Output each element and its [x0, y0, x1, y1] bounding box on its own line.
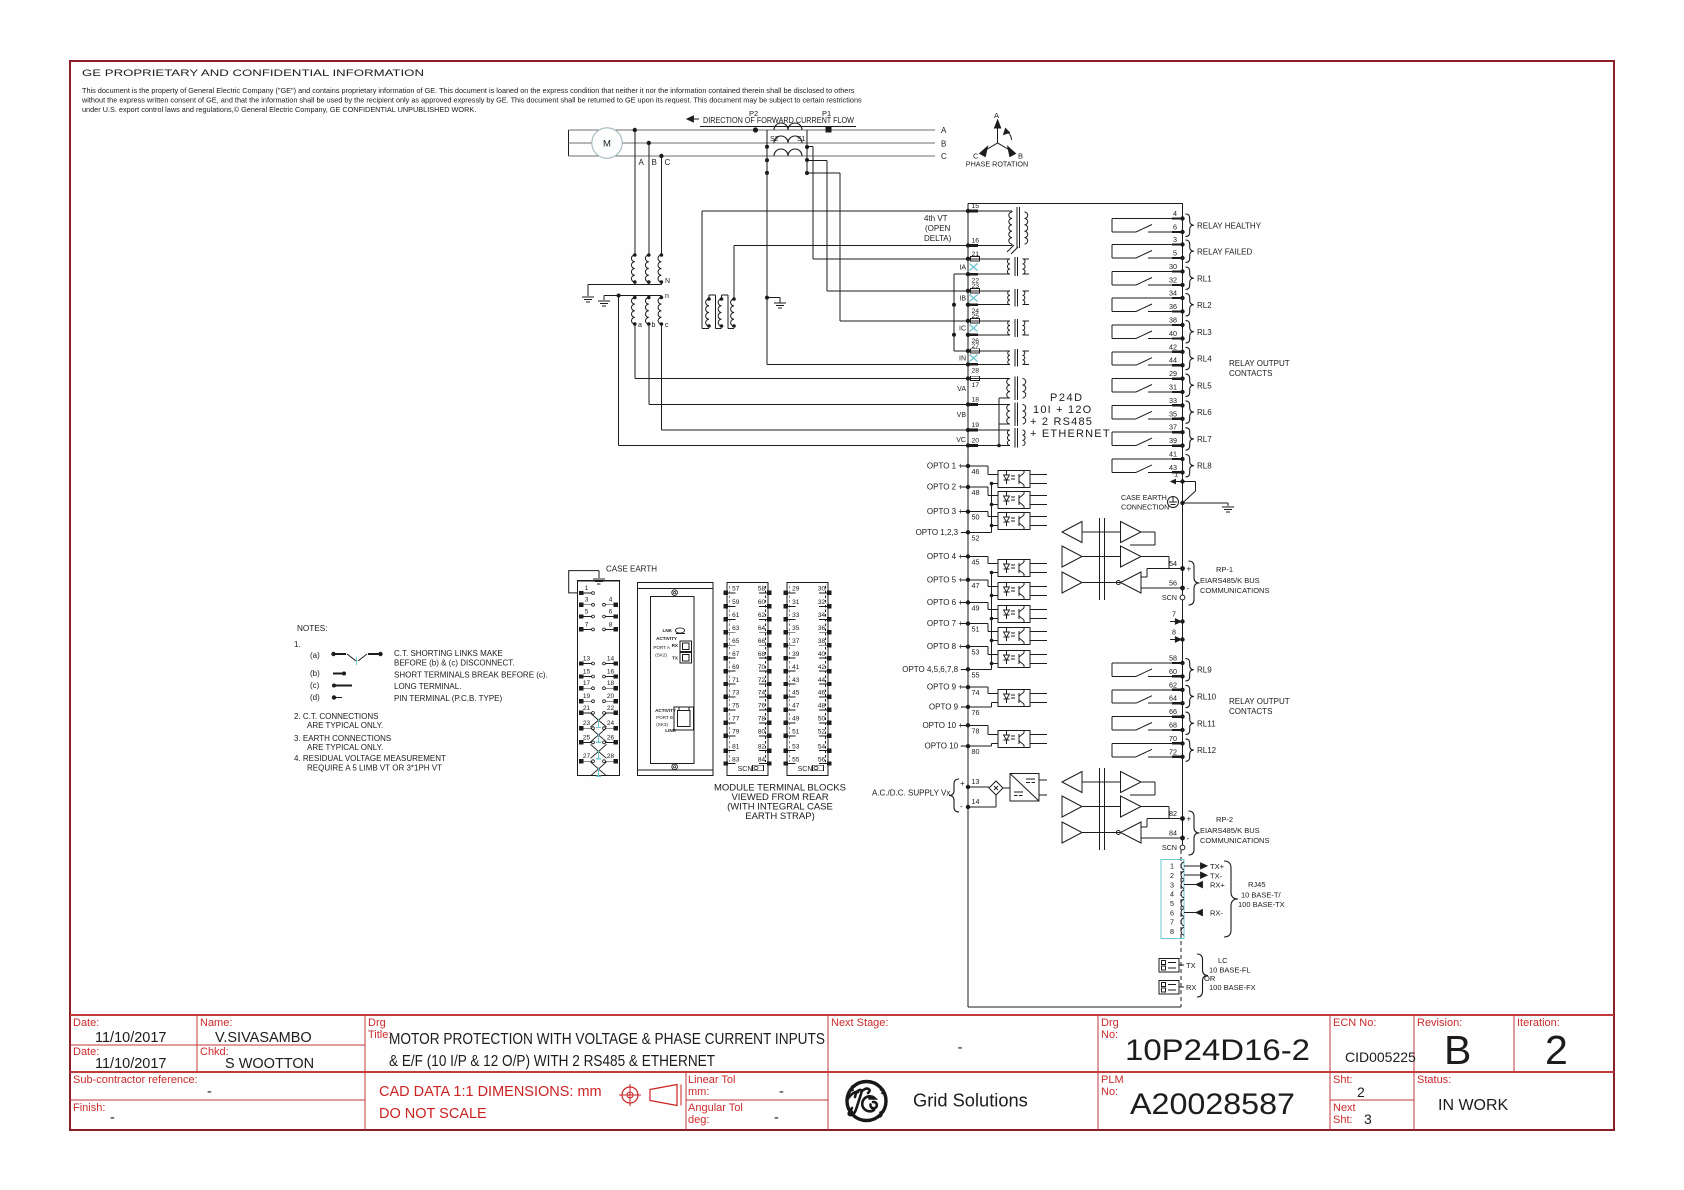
- svg-text:RL10: RL10: [1197, 693, 1217, 702]
- svg-text:deg:: deg:: [688, 1114, 709, 1126]
- svg-text:NOTES:: NOTES:: [297, 624, 327, 633]
- svg-text:55: 55: [972, 670, 980, 679]
- svg-text:64: 64: [758, 625, 766, 632]
- svg-text:18: 18: [972, 397, 980, 404]
- svg-text:77: 77: [732, 716, 740, 723]
- svg-text:RELAY OUTPUT: RELAY OUTPUT: [1229, 359, 1290, 368]
- svg-text:10P24D16-2: 10P24D16-2: [1125, 1034, 1310, 1067]
- svg-text:58: 58: [758, 586, 766, 593]
- svg-text:Title:: Title:: [368, 1029, 391, 1041]
- svg-text:IN WORK: IN WORK: [1438, 1097, 1509, 1114]
- svg-text:+: +: [1187, 815, 1192, 824]
- svg-text:62: 62: [1169, 680, 1177, 689]
- svg-text:3. EARTH CONNECTIONS: 3. EARTH CONNECTIONS: [294, 734, 391, 743]
- svg-text:Angular Tol: Angular Tol: [688, 1102, 743, 1114]
- svg-text:S WOOTTON: S WOOTTON: [225, 1056, 314, 1072]
- svg-text:IA: IA: [959, 265, 966, 272]
- svg-text:60: 60: [1169, 667, 1177, 676]
- svg-text:RL8: RL8: [1197, 462, 1212, 471]
- svg-text:OPTO 1 +: OPTO 1 +: [927, 462, 963, 471]
- svg-text:21: 21: [972, 251, 980, 258]
- svg-text:1: 1: [1170, 862, 1174, 871]
- svg-text:IC: IC: [959, 326, 966, 333]
- svg-text:11/10/2017: 11/10/2017: [95, 1030, 167, 1046]
- svg-text:58: 58: [1169, 654, 1177, 663]
- svg-text:78: 78: [758, 716, 766, 723]
- svg-text:19: 19: [583, 693, 591, 700]
- svg-text:Next Stage:: Next Stage:: [831, 1017, 888, 1029]
- svg-text:mm:: mm:: [688, 1086, 709, 1098]
- svg-text:44: 44: [818, 677, 826, 684]
- svg-text:50: 50: [972, 513, 980, 522]
- svg-text:13: 13: [972, 777, 980, 786]
- svg-text:OPTO 2 +: OPTO 2 +: [927, 483, 963, 492]
- svg-text:44: 44: [1169, 356, 1177, 365]
- svg-text:46: 46: [972, 467, 980, 476]
- svg-text:34: 34: [818, 612, 826, 619]
- svg-text:43: 43: [792, 677, 800, 684]
- svg-text:VB: VB: [957, 412, 967, 419]
- svg-text:(SK2): (SK2): [655, 653, 667, 658]
- svg-text:TX: TX: [672, 656, 679, 661]
- svg-text:OPTO 4 +: OPTO 4 +: [927, 552, 963, 561]
- svg-text:PIN TERMINAL (P.C.B. TYPE): PIN TERMINAL (P.C.B. TYPE): [394, 694, 503, 703]
- svg-text:83: 83: [732, 756, 740, 763]
- svg-text:CONTACTS: CONTACTS: [1229, 369, 1272, 378]
- svg-text:CAD DATA 1:1 DIMENSIONS: mm: CAD DATA 1:1 DIMENSIONS: mm: [379, 1084, 602, 1100]
- svg-text:19: 19: [972, 422, 980, 429]
- svg-text:C.T. SHORTING LINKS MAKE: C.T. SHORTING LINKS MAKE: [394, 649, 503, 658]
- svg-text:-: -: [1187, 584, 1190, 593]
- svg-text:EARTH STRAP): EARTH STRAP): [745, 811, 815, 822]
- svg-text:33: 33: [792, 612, 800, 619]
- svg-text:47: 47: [972, 581, 980, 590]
- svg-text:7: 7: [1172, 610, 1176, 619]
- svg-text:2: 2: [1357, 1084, 1365, 1100]
- svg-text:C: C: [665, 158, 671, 167]
- svg-text:53: 53: [972, 648, 980, 657]
- svg-text:52: 52: [818, 729, 826, 736]
- svg-text:82: 82: [1169, 809, 1177, 818]
- svg-text:21: 21: [583, 705, 591, 712]
- svg-text:SCN: SCN: [798, 766, 813, 773]
- svg-text:26: 26: [607, 734, 615, 741]
- svg-text:Sht:: Sht:: [1333, 1074, 1353, 1086]
- svg-text:57: 57: [732, 586, 740, 593]
- svg-text:25: 25: [972, 313, 980, 320]
- svg-text:33: 33: [1169, 396, 1177, 405]
- svg-text:RP-2: RP-2: [1216, 815, 1233, 824]
- svg-text:54: 54: [1169, 559, 1177, 568]
- svg-text:COMMUNICATIONS: COMMUNICATIONS: [1200, 836, 1269, 845]
- svg-text:27: 27: [972, 343, 980, 350]
- svg-text:OPTO 10 +: OPTO 10 +: [922, 721, 963, 730]
- svg-text:74: 74: [972, 688, 980, 697]
- svg-text:No:: No:: [1101, 1029, 1118, 1041]
- svg-text:76: 76: [972, 708, 980, 717]
- svg-text:10 BASE-T/: 10 BASE-T/: [1241, 891, 1282, 900]
- svg-text:RL12: RL12: [1197, 746, 1217, 755]
- svg-text:3: 3: [585, 597, 589, 604]
- svg-text:OPTO 5 +: OPTO 5 +: [927, 575, 963, 584]
- svg-text:A20028587: A20028587: [1130, 1088, 1295, 1121]
- svg-text:22: 22: [607, 705, 615, 712]
- svg-text:63: 63: [732, 625, 740, 632]
- svg-text:8: 8: [1172, 628, 1176, 637]
- svg-text:A.C./D.C. SUPPLY Vx: A.C./D.C. SUPPLY Vx: [872, 789, 950, 798]
- svg-text:6: 6: [1170, 908, 1174, 917]
- svg-text:RL4: RL4: [1197, 355, 1212, 364]
- svg-text:72: 72: [758, 677, 766, 684]
- svg-text:RELAY FAILED: RELAY FAILED: [1197, 247, 1253, 256]
- svg-text:OPTO 9 +: OPTO 9 +: [927, 683, 963, 692]
- svg-text:(OPEN: (OPEN: [925, 224, 951, 233]
- svg-text:80: 80: [972, 747, 980, 756]
- svg-text:Grid Solutions: Grid Solutions: [913, 1090, 1028, 1111]
- svg-text:OPTO 3 +: OPTO 3 +: [927, 507, 963, 516]
- svg-text:c: c: [665, 322, 669, 329]
- svg-text:RL3: RL3: [1197, 328, 1212, 337]
- svg-text:ECN No:: ECN No:: [1333, 1017, 1376, 1029]
- svg-text:28: 28: [607, 753, 615, 760]
- svg-text:55: 55: [792, 756, 800, 763]
- svg-text:4. RESIDUAL VOLTAGE MEASURE: 4. RESIDUAL VOLTAGE MEASUREMENT: [294, 754, 446, 763]
- svg-text:59: 59: [732, 599, 740, 606]
- svg-text:EIARS485/K BUS: EIARS485/K BUS: [1200, 576, 1260, 585]
- svg-text:100 BASE-FX: 100 BASE-FX: [1209, 983, 1256, 992]
- svg-text:70: 70: [758, 664, 766, 671]
- svg-text:-: -: [1187, 834, 1190, 843]
- svg-text:This document is the property: This document is the property of General…: [82, 86, 855, 95]
- svg-text:N: N: [665, 278, 670, 285]
- svg-text:42: 42: [1169, 342, 1177, 351]
- svg-text:Finish:: Finish:: [73, 1102, 105, 1114]
- svg-text:CONTACTS: CONTACTS: [1229, 707, 1272, 716]
- svg-text:No:: No:: [1101, 1086, 1118, 1098]
- svg-text:SHORT TERMINALS BREAK BEFORE (: SHORT TERMINALS BREAK BEFORE (c).: [394, 671, 548, 680]
- svg-text:C: C: [941, 152, 947, 161]
- svg-text:A: A: [941, 126, 947, 135]
- svg-text:4: 4: [1173, 209, 1177, 218]
- svg-text:2: 2: [1545, 1027, 1568, 1073]
- svg-text:& E/F (10 I/P & 12 O/P) WITH 2: & E/F (10 I/P & 12 O/P) WITH 2 RS485 & E…: [389, 1053, 716, 1070]
- svg-text:-: -: [779, 1084, 784, 1100]
- svg-text:54: 54: [818, 743, 826, 750]
- svg-text:4th VT: 4th VT: [924, 214, 948, 223]
- svg-text:COMMUNICATIONS: COMMUNICATIONS: [1200, 586, 1269, 595]
- svg-text:39: 39: [792, 651, 800, 658]
- svg-text:PHASE ROTATION: PHASE ROTATION: [966, 160, 1028, 169]
- svg-text:68: 68: [1169, 721, 1177, 730]
- svg-text:V.SIVASAMBO: V.SIVASAMBO: [215, 1030, 312, 1046]
- svg-text:TX+: TX+: [1210, 862, 1225, 871]
- svg-text:RL11: RL11: [1197, 719, 1216, 728]
- svg-text:CASE EARTH: CASE EARTH: [1121, 493, 1167, 502]
- svg-text:REQUIRE A 5 LIMB VT OR 3: REQUIRE A 5 LIMB VT OR 3*1PH VT: [307, 764, 442, 773]
- svg-text:13: 13: [583, 656, 591, 663]
- svg-text:BEFORE (b) & (c) DISCONNECT.: BEFORE (b) & (c) DISCONNECT.: [394, 659, 514, 668]
- svg-text:B: B: [941, 139, 946, 148]
- svg-text:38: 38: [1169, 316, 1177, 325]
- svg-text:RELAY HEALTHY: RELAY HEALTHY: [1197, 221, 1262, 230]
- svg-text:CASE EARTH: CASE EARTH: [606, 565, 657, 574]
- svg-text:(d): (d): [310, 693, 320, 702]
- svg-text:+ ETHERNET: + ETHERNET: [1030, 428, 1111, 440]
- svg-text:66: 66: [1169, 707, 1177, 716]
- svg-text:without the express written co: without the express written consent of G…: [81, 96, 862, 105]
- svg-text:RP-1: RP-1: [1216, 565, 1233, 574]
- svg-text:RL6: RL6: [1197, 408, 1212, 417]
- svg-text:Date:: Date:: [73, 1017, 99, 1029]
- svg-text:23: 23: [583, 720, 591, 727]
- svg-text:PORT A: PORT A: [653, 645, 671, 650]
- svg-text:67: 67: [732, 651, 740, 658]
- svg-text:3: 3: [1364, 1111, 1372, 1127]
- svg-text:84: 84: [758, 756, 766, 763]
- svg-text:8: 8: [609, 621, 613, 628]
- svg-text:40: 40: [1169, 329, 1177, 338]
- svg-text:41: 41: [792, 664, 800, 671]
- svg-text:OPTO 10 -: OPTO 10 -: [924, 742, 963, 751]
- svg-text:71: 71: [732, 677, 740, 684]
- svg-text:6: 6: [1173, 223, 1177, 232]
- svg-text:39: 39: [1169, 436, 1177, 445]
- svg-text:1: 1: [585, 585, 589, 592]
- svg-text:S2: S2: [770, 136, 779, 143]
- svg-text:1.: 1.: [294, 640, 301, 649]
- svg-text:ACTIVITY: ACTIVITY: [655, 708, 676, 713]
- svg-text:38: 38: [818, 638, 826, 645]
- svg-text:RL9: RL9: [1197, 666, 1212, 675]
- svg-text:DO NOT SCALE: DO NOT SCALE: [379, 1106, 487, 1122]
- svg-text:34: 34: [1169, 289, 1177, 298]
- svg-text:ARE TYPICAL ONLY.: ARE TYPICAL ONLY.: [307, 743, 383, 752]
- svg-text:P24D: P24D: [1050, 392, 1084, 404]
- svg-text:Name:: Name:: [200, 1017, 232, 1029]
- svg-text:VC: VC: [956, 437, 966, 444]
- svg-text:74: 74: [758, 690, 766, 697]
- svg-text:40: 40: [818, 651, 826, 658]
- svg-text:17: 17: [972, 382, 980, 389]
- svg-text:A: A: [994, 111, 999, 120]
- svg-text:OPTO 1,2,3 -: OPTO 1,2,3 -: [916, 528, 964, 537]
- svg-text:78: 78: [972, 726, 980, 735]
- svg-text:M: M: [603, 139, 611, 150]
- svg-text:Drg: Drg: [368, 1017, 386, 1029]
- svg-text:5: 5: [1170, 899, 1174, 908]
- svg-text:30: 30: [818, 586, 826, 593]
- svg-text:IN: IN: [959, 356, 966, 363]
- svg-text:6: 6: [609, 609, 613, 616]
- svg-text:14: 14: [972, 797, 980, 806]
- svg-text:4: 4: [1170, 890, 1174, 899]
- svg-text:16: 16: [607, 669, 615, 676]
- svg-text:VA: VA: [957, 386, 966, 393]
- svg-text:-: -: [207, 1084, 212, 1100]
- svg-text:OPTO 4,5,6,7,8 -: OPTO 4,5,6,7,8 -: [902, 665, 963, 674]
- svg-text:EIARS485/K BUS: EIARS485/K BUS: [1200, 826, 1260, 835]
- svg-text:DELTA): DELTA): [924, 234, 952, 243]
- svg-text:S1: S1: [797, 136, 806, 143]
- svg-text:+ 2 RS485: + 2 RS485: [1030, 416, 1093, 428]
- svg-text:48: 48: [818, 703, 826, 710]
- svg-text:RL1: RL1: [1197, 274, 1212, 283]
- svg-text:23: 23: [972, 283, 980, 290]
- svg-text:RL5: RL5: [1197, 381, 1212, 390]
- svg-text:TX: TX: [1186, 961, 1196, 970]
- svg-text:under U.S. export control laws: under U.S. export control laws and regul…: [82, 105, 476, 114]
- svg-text:a: a: [638, 322, 642, 329]
- svg-text:68: 68: [758, 651, 766, 658]
- svg-text:RELAY OUTPUT: RELAY OUTPUT: [1229, 697, 1290, 706]
- svg-text:-: -: [774, 1110, 779, 1126]
- svg-text:82: 82: [758, 743, 766, 750]
- svg-text:61: 61: [732, 612, 740, 619]
- svg-text:B: B: [652, 158, 657, 167]
- svg-text:64: 64: [1169, 694, 1177, 703]
- svg-text:5: 5: [1173, 249, 1177, 258]
- svg-text:7: 7: [1170, 918, 1174, 927]
- svg-text:RJ45: RJ45: [1248, 880, 1266, 889]
- svg-text:ACTIVITY: ACTIVITY: [656, 636, 677, 641]
- svg-text:RX: RX: [1186, 983, 1196, 992]
- svg-text:Sht:: Sht:: [1333, 1114, 1353, 1126]
- svg-text:16: 16: [972, 238, 980, 245]
- svg-text:79: 79: [732, 729, 740, 736]
- svg-text:42: 42: [818, 664, 826, 671]
- svg-text:P1: P1: [822, 109, 831, 118]
- svg-text:RL2: RL2: [1197, 301, 1212, 310]
- svg-text:17: 17: [583, 680, 591, 687]
- svg-text:SCN: SCN: [1162, 593, 1177, 602]
- svg-text:RX+: RX+: [1210, 881, 1225, 890]
- svg-text:LNK: LNK: [663, 628, 673, 633]
- svg-text:7: 7: [585, 621, 589, 628]
- svg-text:46: 46: [818, 690, 826, 697]
- svg-text:SCN: SCN: [1162, 843, 1177, 852]
- svg-text:(c): (c): [310, 681, 320, 690]
- svg-text:49: 49: [792, 716, 800, 723]
- svg-text:(a): (a): [310, 651, 320, 660]
- svg-text:60: 60: [758, 599, 766, 606]
- svg-text:14: 14: [607, 656, 615, 663]
- svg-text:56: 56: [818, 756, 826, 763]
- svg-text:24: 24: [607, 720, 615, 727]
- svg-text:Drg: Drg: [1101, 1017, 1119, 1029]
- svg-text:+: +: [960, 779, 965, 788]
- svg-text:32: 32: [818, 599, 826, 606]
- svg-text:35: 35: [792, 625, 800, 632]
- svg-text:51: 51: [792, 729, 800, 736]
- svg-text:51: 51: [972, 625, 980, 634]
- svg-text:A: A: [639, 158, 645, 167]
- svg-text:-: -: [960, 802, 963, 811]
- svg-text:TX-: TX-: [1210, 871, 1223, 880]
- svg-text:+: +: [1187, 565, 1192, 574]
- svg-text:CID005225: CID005225: [1345, 1049, 1416, 1065]
- svg-text:OR: OR: [1204, 974, 1216, 983]
- svg-text:n: n: [665, 293, 669, 300]
- svg-text:15: 15: [583, 669, 591, 676]
- svg-text:PLM: PLM: [1101, 1074, 1124, 1086]
- svg-text:35: 35: [1169, 409, 1177, 418]
- svg-text:1: 1: [1174, 472, 1178, 479]
- svg-text:62: 62: [758, 612, 766, 619]
- svg-text:LC: LC: [1218, 956, 1228, 965]
- svg-text:72: 72: [1169, 747, 1177, 756]
- svg-text:B: B: [1444, 1027, 1471, 1073]
- svg-text:OPTO 6 +: OPTO 6 +: [927, 598, 963, 607]
- svg-text:3: 3: [1173, 235, 1177, 244]
- svg-text:MOTOR PROTECTION WITH VOLTAGE: MOTOR PROTECTION WITH VOLTAGE & PHASE CU…: [389, 1031, 825, 1048]
- svg-text:-: -: [110, 1110, 115, 1126]
- svg-text:8: 8: [1170, 927, 1174, 936]
- svg-text:Sub-contractor reference:: Sub-contractor reference:: [73, 1074, 198, 1086]
- svg-text:ARE TYPICAL ONLY.: ARE TYPICAL ONLY.: [307, 721, 383, 730]
- svg-text:CONNECTION: CONNECTION: [1121, 503, 1169, 512]
- svg-text:47: 47: [792, 703, 800, 710]
- svg-text:45: 45: [972, 558, 980, 567]
- svg-text:80: 80: [758, 729, 766, 736]
- svg-text:37: 37: [1169, 423, 1177, 432]
- svg-text:84: 84: [1169, 829, 1177, 838]
- svg-text:IB: IB: [959, 296, 966, 303]
- svg-text:RL7: RL7: [1197, 435, 1212, 444]
- svg-text:100 BASE-TX: 100 BASE-TX: [1238, 900, 1285, 909]
- svg-text:b: b: [652, 322, 656, 329]
- svg-text:5: 5: [585, 609, 589, 616]
- svg-text:20: 20: [972, 438, 980, 445]
- svg-text:Linear Tol: Linear Tol: [688, 1074, 736, 1086]
- svg-text:70: 70: [1169, 734, 1177, 743]
- svg-text:66: 66: [758, 638, 766, 645]
- svg-text:15: 15: [972, 203, 980, 210]
- svg-text:50: 50: [818, 716, 826, 723]
- svg-text:Next: Next: [1333, 1102, 1356, 1114]
- svg-text:30: 30: [1169, 262, 1177, 271]
- svg-text:SCN: SCN: [738, 766, 753, 773]
- svg-text:11/10/2017: 11/10/2017: [95, 1056, 167, 1072]
- svg-text:2. C.T. CONNECTIONS: 2. C.T. CONNECTIONS: [294, 712, 378, 721]
- svg-text:OPTO 7 +: OPTO 7 +: [927, 619, 963, 628]
- svg-text:37: 37: [792, 638, 800, 645]
- svg-text:Status:: Status:: [1417, 1074, 1451, 1086]
- svg-text:18: 18: [607, 680, 615, 687]
- svg-text:29: 29: [792, 586, 800, 593]
- svg-text:RX-: RX-: [1210, 909, 1223, 918]
- svg-text:27: 27: [583, 753, 591, 760]
- svg-text:(b): (b): [310, 669, 320, 678]
- svg-text:36: 36: [818, 625, 826, 632]
- svg-text:28: 28: [972, 368, 980, 375]
- svg-text:LONG TERMINAL.: LONG TERMINAL.: [394, 682, 461, 691]
- svg-text:45: 45: [792, 690, 800, 697]
- svg-text:52: 52: [972, 533, 980, 542]
- svg-text:31: 31: [1169, 383, 1177, 392]
- svg-text:65: 65: [732, 638, 740, 645]
- svg-text:OPTO 9 -: OPTO 9 -: [929, 702, 963, 711]
- svg-text:49: 49: [972, 604, 980, 613]
- svg-text:29: 29: [1169, 369, 1177, 378]
- svg-text:73: 73: [732, 690, 740, 697]
- svg-text:GE PROPRIETARY AND CONFIDENTIA: GE PROPRIETARY AND CONFIDENTIAL INFORMAT…: [82, 68, 424, 79]
- svg-text:32: 32: [1169, 276, 1177, 285]
- svg-text:P2: P2: [749, 109, 758, 118]
- svg-text:41: 41: [1169, 450, 1177, 459]
- svg-text:PORT B: PORT B: [656, 715, 673, 720]
- svg-text:31: 31: [792, 599, 800, 606]
- svg-text:10I + 12O: 10I + 12O: [1033, 404, 1092, 416]
